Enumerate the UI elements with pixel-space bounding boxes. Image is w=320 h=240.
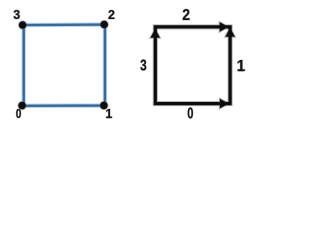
svg-text:1: 1	[105, 107, 112, 121]
svg-text:2: 2	[182, 7, 190, 24]
svg-text:3: 3	[140, 57, 147, 74]
svg-text:3: 3	[13, 8, 20, 22]
svg-text:2: 2	[108, 8, 115, 22]
svg-text:1: 1	[237, 58, 246, 75]
svg-text:0: 0	[187, 105, 193, 122]
svg-text:0: 0	[16, 107, 22, 121]
